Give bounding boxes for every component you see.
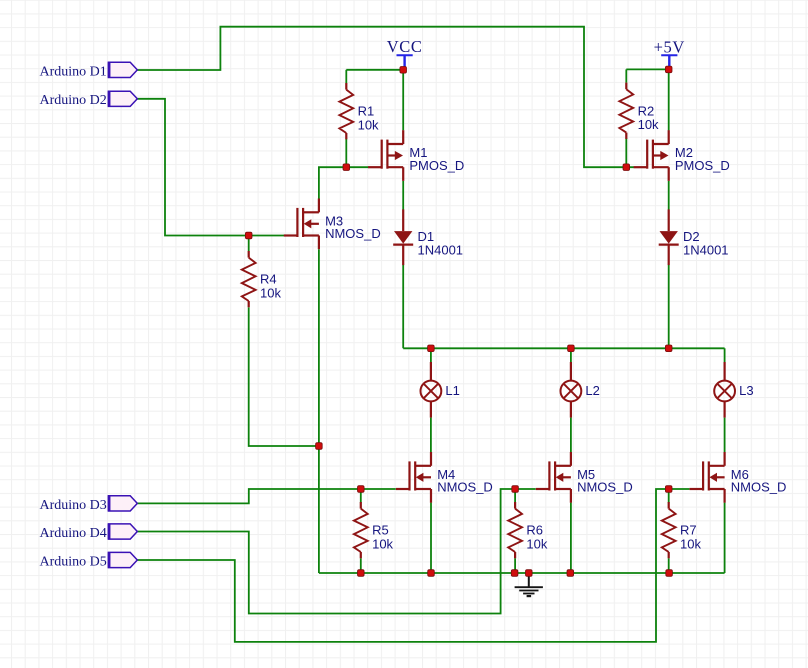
svg-text:NMOS_D: NMOS_D <box>325 226 381 241</box>
wire: R top lead wire <box>514 489 516 503</box>
svg-text:Arduino D3: Arduino D3 <box>40 498 107 513</box>
wire: net M3 drain to M1 gate <box>319 167 369 199</box>
wire: net +5V to M2 drain <box>668 69 670 130</box>
svg-text:NMOS_D: NMOS_D <box>731 480 787 495</box>
junction <box>568 345 575 352</box>
svg-text:10k: 10k <box>358 117 379 132</box>
junction <box>428 570 435 577</box>
svg-text:Arduino D1: Arduino D1 <box>40 64 107 79</box>
svg-text:VCC: VCC <box>387 37 423 56</box>
wire: L1 to M4 drain <box>430 418 432 453</box>
wire: lamp supply rail <box>403 347 724 349</box>
transistor M4 NMOS_D <box>396 452 493 503</box>
junction <box>567 570 574 577</box>
supply symbol +5V <box>654 37 685 69</box>
junction <box>358 486 365 493</box>
supply symbol VCC <box>387 37 423 70</box>
wire: diode D2 to lamp rail <box>668 265 670 348</box>
wire: R2 bottom lead wire <box>625 138 627 167</box>
wire: M1 source to diode D1 <box>402 181 404 210</box>
resistor R5 10k <box>354 502 394 558</box>
junction <box>526 570 533 577</box>
wire: M source to rail <box>724 503 726 573</box>
wire: R top lead wire <box>360 489 362 503</box>
wire: net Arduino D5 to M6 gate <box>137 489 689 642</box>
junction <box>511 570 518 577</box>
wire: R top lead wire <box>668 489 670 503</box>
connector flag Arduino D5 <box>40 552 138 569</box>
connector flag Arduino D4 <box>40 524 138 541</box>
svg-text:10k: 10k <box>372 536 393 551</box>
junction <box>358 570 365 577</box>
wire: R4 bottom wire to M3 source line <box>249 307 319 446</box>
svg-text:1N4001: 1N4001 <box>683 243 729 258</box>
wire: M source to rail <box>570 503 572 573</box>
junction <box>623 164 630 171</box>
junction <box>666 570 673 577</box>
transistor M5 NMOS_D <box>536 452 633 503</box>
wire: net M3 source down <box>318 249 320 573</box>
wire: R bottom lead wire <box>514 558 516 573</box>
diode D1 1N4001 <box>393 209 463 265</box>
wire: L3 top stub <box>724 348 726 362</box>
wire: net Arduino D3 to M4 gate <box>137 489 396 503</box>
resistor R2 10k <box>619 83 659 139</box>
junction <box>665 486 672 493</box>
wire: net Arduino D2 to M3 gate <box>137 99 285 236</box>
connector flag Arduino D3 <box>40 496 138 513</box>
wire: L1 top stub <box>430 348 432 362</box>
wire: net VCC to M1 drain <box>402 70 404 131</box>
junction <box>512 486 519 493</box>
wire: M2 source to diode D2 <box>668 181 670 210</box>
transistor M6 NMOS_D <box>690 452 787 503</box>
wire: R2 top lead wire <box>625 69 627 82</box>
wire: net Arduino D4 to M5 gate <box>137 489 535 614</box>
wire: diode D1 to lamp rail <box>402 265 404 348</box>
junction <box>665 66 672 73</box>
svg-text:Arduino D5: Arduino D5 <box>40 554 107 569</box>
junction <box>316 443 323 450</box>
connector flag Arduino D2 <box>40 91 138 108</box>
junction <box>400 67 407 74</box>
connector flag Arduino D1 <box>40 62 138 79</box>
svg-text:+5V: +5V <box>654 37 685 56</box>
junction <box>428 345 435 352</box>
junction <box>343 164 350 171</box>
lamp L2 <box>561 362 600 418</box>
wire: R bottom lead wire <box>360 558 362 573</box>
svg-text:PMOS_D: PMOS_D <box>675 158 730 173</box>
wire: net Arduino D1 to M2 gate <box>137 27 634 168</box>
svg-text:Arduino D4: Arduino D4 <box>40 526 107 541</box>
junction <box>665 345 672 352</box>
lamp L1 <box>421 362 460 418</box>
wire: R bottom lead wire <box>668 558 670 573</box>
svg-text:10k: 10k <box>260 285 281 300</box>
wire: L2 top stub <box>570 348 572 362</box>
resistor R7 10k <box>662 502 702 558</box>
wire: L3 to M6 drain <box>724 418 726 453</box>
ground <box>515 573 543 596</box>
svg-text:L2: L2 <box>585 383 599 398</box>
svg-text:10k: 10k <box>526 536 547 551</box>
resistor R6 10k <box>508 502 548 558</box>
svg-text:NMOS_D: NMOS_D <box>577 480 633 495</box>
resistor R4 10k <box>242 251 282 307</box>
resistor R1 10k <box>339 83 379 139</box>
svg-text:10k: 10k <box>638 117 659 132</box>
svg-text:L1: L1 <box>445 383 459 398</box>
lamp L3 <box>714 362 753 418</box>
transistor M2 PMOS_D <box>634 130 730 181</box>
svg-text:Arduino D2: Arduino D2 <box>40 93 107 108</box>
svg-text:L3: L3 <box>739 383 753 398</box>
svg-text:10k: 10k <box>680 536 701 551</box>
svg-text:NMOS_D: NMOS_D <box>437 480 493 495</box>
diode D2 1N4001 <box>659 209 729 265</box>
transistor M3 NMOS_D <box>284 199 381 250</box>
wire: L2 to M5 drain <box>570 418 572 453</box>
wire: R4 top lead wire <box>248 236 250 252</box>
wire: R1 bottom lead wire <box>345 139 347 168</box>
junction <box>245 232 252 239</box>
transistor M1 PMOS_D <box>368 130 464 181</box>
wire: net +5V horizontal <box>626 68 668 70</box>
svg-text:1N4001: 1N4001 <box>418 243 464 258</box>
svg-text:PMOS_D: PMOS_D <box>409 158 464 173</box>
wire: net VCC horizontal <box>346 69 403 71</box>
wire: M source to rail <box>430 503 432 573</box>
wire: R1 top lead wire <box>345 70 347 83</box>
wire: bottom source rail <box>319 572 725 574</box>
